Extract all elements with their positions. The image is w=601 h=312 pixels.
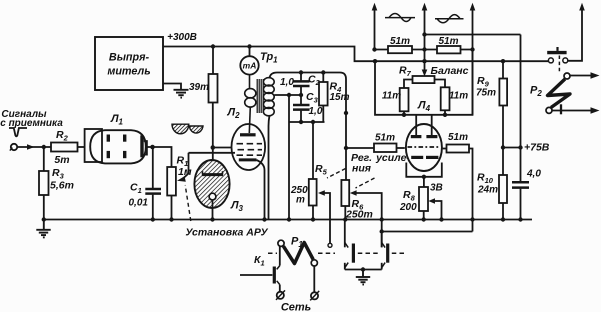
svg-text:усиле-: усиле- xyxy=(375,152,410,164)
wire/arrow up 2 (through to R7 wiper) xyxy=(422,3,428,77)
wire rectifier bottom to ground xyxy=(163,84,181,90)
input terminal xyxy=(10,144,17,151)
svg-text:+75В: +75В xyxy=(524,142,550,154)
node tap wire xyxy=(287,93,291,97)
svg-text:39т: 39т xyxy=(189,82,209,93)
wire junction to R1 xyxy=(153,147,172,167)
dashed pointer to R1 wiper xyxy=(185,185,191,221)
wire grid-row (from rail down, along y114.8, up to 51т row) xyxy=(375,50,473,115)
dashed pointer to R6 wiper xyxy=(356,178,375,188)
meter тА xyxy=(240,47,258,75)
R8 wiper arrow xyxy=(428,198,441,219)
wire 51т row xyxy=(375,49,473,51)
R5 wiper arrow to terminal below xyxy=(318,190,332,247)
svg-text:Тр1: Тр1 xyxy=(260,51,278,65)
node meter rail xyxy=(247,44,251,48)
wire R5 top lead xyxy=(312,122,314,179)
dashed linkage between poles xyxy=(268,252,277,254)
node C3 bottom junction xyxy=(299,120,303,124)
relay/ballast Р1 zigzag xyxy=(278,240,318,292)
node 39т rail xyxy=(211,44,215,48)
resistor 11т right xyxy=(441,87,469,115)
svg-text:R5: R5 xyxy=(315,163,328,177)
svg-text:C3: C3 xyxy=(306,91,319,105)
svg-text:Установка АРУ: Установка АРУ xyxy=(185,227,268,239)
svg-text:Л2: Л2 xyxy=(227,107,241,121)
wire/arrow up 3 xyxy=(470,3,476,115)
dashed link contact to P2 xyxy=(558,56,560,73)
svg-text:1,0: 1,0 xyxy=(309,106,323,117)
svg-text:Баланс: Баланс xyxy=(431,65,469,77)
capacitor C2 xyxy=(280,73,321,105)
svg-text:R2: R2 xyxy=(56,129,69,143)
label Рег усиления xyxy=(351,152,410,175)
tube L4 xyxy=(406,115,442,171)
svg-text:1,0: 1,0 xyxy=(280,77,294,88)
main bottom rail xyxy=(44,219,532,221)
svg-text:51т: 51т xyxy=(448,132,468,143)
svg-text:т: т xyxy=(296,195,305,206)
node L1 anode junction xyxy=(150,145,155,150)
resistor R1 1M (pot) xyxy=(167,155,192,196)
svg-text:51т: 51т xyxy=(375,133,395,144)
svg-text:0,01: 0,01 xyxy=(129,198,149,209)
svg-text:Л3: Л3 xyxy=(230,200,244,214)
svg-text:51т: 51т xyxy=(438,36,458,47)
node R5 tap xyxy=(311,120,315,124)
contact of P2 (top right) xyxy=(547,47,568,63)
wire L1 anode out xyxy=(147,146,153,148)
transformer Тр1 primary winding xyxy=(245,75,256,133)
resistor R8 200 xyxy=(399,177,428,220)
R6 wiper arrow to wire down xyxy=(350,190,382,247)
svg-text:11т: 11т xyxy=(449,91,468,102)
dashed pointer to R5 wiper xyxy=(327,169,346,179)
wire C3 bottom to R4 bottom xyxy=(289,121,325,123)
svg-text:75т: 75т xyxy=(476,88,496,99)
wire R3 bottom to rail xyxy=(43,195,45,220)
potentiometer R7 xyxy=(404,76,445,88)
node dots grid row xyxy=(402,113,447,117)
tube L1 (double triode, horizontal) xyxy=(85,129,147,163)
wire L2 cathode to rail xyxy=(257,160,265,220)
mains switch pole 2 xyxy=(382,234,388,270)
resistor R10 24т xyxy=(477,172,507,220)
resistor R9 75т xyxy=(476,61,507,175)
wire junction to L2 grid xyxy=(213,147,232,149)
node C2 top xyxy=(299,70,303,74)
rail junction dots xyxy=(151,217,523,221)
ground under switch xyxy=(356,270,370,285)
node dots on main y61 rail xyxy=(373,59,505,63)
wire/arrow up 1 xyxy=(372,3,378,50)
svg-text:ния: ния xyxy=(352,163,371,175)
resistor 11т left xyxy=(382,88,409,115)
sine symbol 1 xyxy=(385,14,415,22)
svg-text:Выпря-: Выпря- xyxy=(109,52,150,64)
svg-text:Р2: Р2 xyxy=(530,85,542,99)
resistor R4 15т xyxy=(319,73,350,123)
node input/R3 junction xyxy=(42,145,46,149)
capacitor 4,0 xyxy=(512,169,541,220)
resistor R6 250т pot xyxy=(341,180,372,221)
wire R2 to tube L1 xyxy=(78,146,85,148)
wire secondary mid tap to C2/C3 midpoint xyxy=(274,94,301,96)
svg-text:51т: 51т xyxy=(390,36,410,47)
second bottom rail xyxy=(382,231,473,233)
hatched decoration blob xyxy=(172,124,203,134)
relay P2 (zigzag with arrows) xyxy=(546,72,600,114)
node dots on 51т row xyxy=(372,47,474,51)
wire from tap junction down to rail xyxy=(288,95,290,220)
sine symbol 2 xyxy=(435,15,464,23)
resistor R2 xyxy=(51,129,78,166)
node +75V xyxy=(503,147,521,149)
wire L4 cathode bracket xyxy=(406,163,442,177)
svg-text:24т: 24т xyxy=(477,185,498,196)
svg-text:R3: R3 xyxy=(52,167,65,181)
svg-text:200: 200 xyxy=(399,202,417,213)
wire right vertical from tap wire down xyxy=(520,35,522,182)
tube L3 photocell (hatched) xyxy=(194,160,229,208)
svg-text:R7: R7 xyxy=(399,65,412,79)
ground under rectifier xyxy=(174,90,189,98)
svg-text:Л4: Л4 xyxy=(417,100,431,114)
wire switch common bottom xyxy=(345,269,382,271)
wire R1 bottom to rail xyxy=(171,196,173,220)
resistor 51т bottom-right xyxy=(443,132,473,232)
resistor R3 xyxy=(39,167,74,195)
rectifier box Выпрямитель xyxy=(95,37,163,90)
svg-text:R10: R10 xyxy=(477,172,494,186)
resistor 39т xyxy=(189,74,218,103)
wire secondary bottom down to rail xyxy=(269,115,270,219)
svg-text:250т: 250т xyxy=(345,209,373,221)
wire +300V rail from rectifier to right, corner down at x354 then rail y61 to P2 contact xyxy=(163,47,548,62)
svg-text:тА: тА xyxy=(243,61,257,71)
node rail left end xyxy=(42,217,46,221)
svg-text:4,0: 4,0 xyxy=(526,169,541,180)
R1 wiper arrow and wire to L2 grid xyxy=(177,153,235,182)
svg-text:Сеть: Сеть xyxy=(281,302,311,312)
wire 39т top to +300V rail xyxy=(212,47,214,75)
resistor 51т top-right xyxy=(437,36,461,53)
pulse waveform symbol xyxy=(9,128,27,136)
svg-text:5т: 5т xyxy=(54,154,69,166)
ground bottom left xyxy=(36,220,50,238)
capacitor C1 0,01 xyxy=(129,147,162,220)
mains switch pole 1 xyxy=(345,220,354,270)
node R4 top xyxy=(321,70,325,74)
svg-text:R9: R9 xyxy=(477,75,490,89)
key contact К1 xyxy=(240,247,280,292)
svg-text:Л1: Л1 xyxy=(110,113,124,127)
svg-text:11т: 11т xyxy=(382,91,401,102)
svg-text:15т: 15т xyxy=(330,92,350,103)
label Сигналы с приемника xyxy=(0,109,63,129)
svg-text:+300В: +300В xyxy=(167,32,197,43)
transformer core xyxy=(257,79,263,113)
resistor 51т top-left xyxy=(388,36,412,53)
wire secondary top to right, corner down to R6 xyxy=(270,73,347,181)
resistor R5 250т pot xyxy=(290,163,328,220)
svg-text:C1: C1 xyxy=(130,182,142,196)
svg-text:R8: R8 xyxy=(403,189,416,203)
wire L3 bottom to rail xyxy=(212,208,214,220)
mains terminal left xyxy=(276,290,285,300)
resistor 51т bottom-left xyxy=(346,133,405,153)
svg-text:К1: К1 xyxy=(254,254,265,268)
node stray junction on AGC line xyxy=(344,111,348,115)
wire contact to corner and arrow up 4 xyxy=(568,3,585,61)
wire 39т bottom down to L3 anode xyxy=(212,103,214,173)
wire R3 top lead xyxy=(43,147,45,171)
wire input to R2 with arrow xyxy=(17,144,51,150)
wire centre-tap across to right side xyxy=(425,34,521,36)
mains terminal right xyxy=(310,291,319,301)
svg-text:5,6т: 5,6т xyxy=(50,180,74,192)
svg-text:митель: митель xyxy=(107,66,150,78)
node L3 anode / L2 grid junction xyxy=(211,145,216,150)
tube L2 xyxy=(232,124,266,170)
transformer Тр1 secondary winding xyxy=(263,78,274,116)
capacitor C3 xyxy=(293,91,323,122)
svg-text:3В: 3В xyxy=(430,183,443,194)
